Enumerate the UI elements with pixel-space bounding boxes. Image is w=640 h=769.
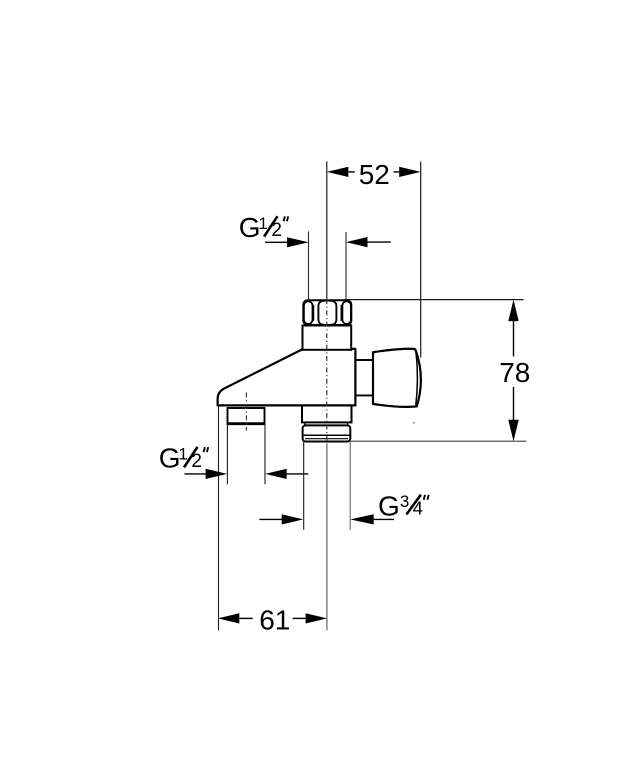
knob face inner arc — [416, 351, 418, 405]
G1/2 top thread left extension line — [308, 231, 310, 300]
G3/4 label — [378, 490, 429, 521]
G1/2 bottom left-pointing arrow — [265, 469, 287, 479]
collar thread lines — [303, 434, 350, 436]
center line dash-dot through valve — [326, 299, 328, 444]
bottom neck — [302, 406, 352, 423]
G3/4 right extension line — [349, 442, 351, 531]
knob — [373, 349, 421, 407]
center line lower solid (61 right extension) — [326, 444, 328, 630]
dimension 52 left arrow — [327, 167, 349, 177]
61 left extension line (body nose) — [218, 407, 220, 631]
svg-text:52: 52 — [359, 159, 390, 190]
G3/4 left-pointing arrow — [350, 514, 374, 524]
left outlet center line — [245, 393, 247, 431]
top neck — [303, 326, 352, 350]
stray dot — [413, 422, 415, 424]
G3/4 left extension line — [303, 442, 305, 530]
left outlet — [228, 408, 265, 424]
dimension 61 left arrow — [218, 613, 240, 623]
undercut ring — [304, 422, 306, 425]
svg-text:2: 2 — [271, 220, 282, 241]
78 top extension line — [345, 299, 524, 301]
svg-text:1: 1 — [258, 214, 267, 233]
hex nut — [303, 300, 351, 325]
center line upper solid (52 left extension) — [326, 161, 328, 300]
svg-text:G: G — [239, 212, 261, 243]
dimension 61 right arrow — [306, 613, 328, 623]
G1/2 top label — [239, 212, 289, 243]
G1/2 bottom right-pointing arrow — [185, 473, 207, 475]
dimension 78 up arrow — [508, 300, 518, 322]
svg-text:78: 78 — [499, 357, 530, 388]
dimension 78 down arrow — [508, 420, 518, 442]
outlet right extension line — [264, 425, 266, 485]
G1/2 top thread right extension line — [345, 232, 347, 300]
svg-text:1: 1 — [178, 445, 187, 464]
svg-text:3: 3 — [400, 492, 409, 511]
dimension 52 right arrow — [399, 167, 421, 177]
svg-text:61: 61 — [259, 605, 290, 636]
outlet left extension line — [226, 425, 228, 485]
52 right extension line — [420, 161, 422, 357]
threaded collar — [303, 425, 351, 441]
78 bottom extension line — [350, 440, 526, 442]
G3/4 right-pointing arrow — [259, 518, 282, 520]
G1/2 top right-pointing arrow — [265, 241, 288, 243]
body with spout — [218, 349, 356, 406]
svg-text:G: G — [159, 443, 181, 474]
svg-text:4: 4 — [413, 498, 423, 519]
svg-text:G: G — [378, 490, 400, 521]
svg-text:2: 2 — [191, 451, 202, 472]
knob stem — [356, 359, 373, 361]
G1/2 bottom label — [159, 443, 209, 474]
G1/2 top left-pointing arrow — [346, 237, 368, 247]
